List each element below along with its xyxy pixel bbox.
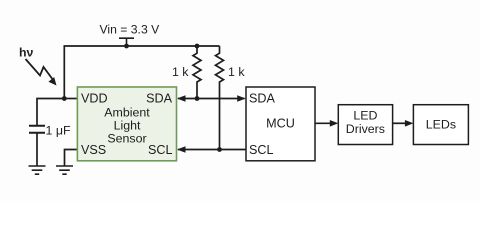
power tap symbol Vin [119, 38, 134, 46]
svg-text:MCU: MCU [266, 117, 295, 131]
junction dot: resistor R1 top on rail [195, 44, 200, 49]
svg-text:VDD: VDD [81, 92, 108, 106]
wire: sensor VSS pin to ground [65, 150, 78, 167]
svg-text:SDA: SDA [249, 92, 275, 106]
svg-text:SCL: SCL [148, 143, 173, 157]
arrowhead into sensor SCL pin [177, 146, 186, 153]
svg-text:hν: hν [19, 45, 34, 59]
svg-text:SDA: SDA [146, 92, 172, 106]
ambient light sensor U1 box [77, 87, 176, 161]
svg-text:Sensor: Sensor [107, 131, 146, 145]
svg-text:1 k: 1 k [228, 65, 245, 79]
svg-text:1 k: 1 k [172, 65, 189, 79]
photon arrowhead [48, 77, 56, 85]
junction dot: VDD node (rail, cap, sensor) [62, 96, 67, 101]
svg-text:LED: LED [353, 109, 377, 123]
svg-text:Ambient: Ambient [104, 105, 150, 119]
svg-text:Drivers: Drivers [346, 122, 385, 136]
svg-text:VSS: VSS [81, 143, 106, 157]
svg-text:1 μF: 1 μF [46, 124, 71, 138]
arrowhead into LEDs [405, 120, 414, 127]
junction dot: Vin tap on rail [124, 44, 129, 49]
wire: Vin power rail with left drop to VDD node [64, 46, 219, 99]
ground symbol under C1 [29, 166, 46, 174]
junction dot: R1 bottom on SDA line [195, 96, 200, 101]
resistor R1 1k SDA pull-up [193, 46, 201, 99]
capacitor C1 plates [29, 126, 45, 133]
photon arrow (light into sensor) [26, 59, 54, 81]
wire: SCL net sensor to MCU [178, 149, 246, 151]
svg-text:SCL: SCL [249, 143, 274, 157]
resistor R2 1k SCL pull-up [216, 46, 224, 150]
wire: capacitor C1 to ground [36, 134, 38, 166]
wire: VDD node to capacitor C1 [37, 99, 64, 126]
svg-text:LEDs: LEDs [426, 118, 456, 132]
svg-text:Vin = 3.3 V: Vin = 3.3 V [100, 23, 161, 37]
LED drivers box [338, 105, 392, 145]
junction dot: R2 bottom on SCL line [217, 147, 222, 152]
LEDs box [413, 105, 468, 145]
MCU box [246, 87, 315, 161]
ground symbol at VSS [56, 166, 73, 174]
svg-text:Light: Light [114, 118, 141, 132]
wire: LED drivers to LEDs [393, 122, 407, 124]
arrowhead into MCU SDA pin [237, 95, 246, 102]
wire: VDD node to sensor VDD pin [64, 98, 77, 100]
arrowhead into sensor SDA pin [177, 95, 186, 102]
wire: MCU to LED drivers [315, 122, 332, 124]
wire: SDA net sensor to MCU [178, 98, 245, 100]
arrowhead into LED drivers [330, 120, 339, 127]
